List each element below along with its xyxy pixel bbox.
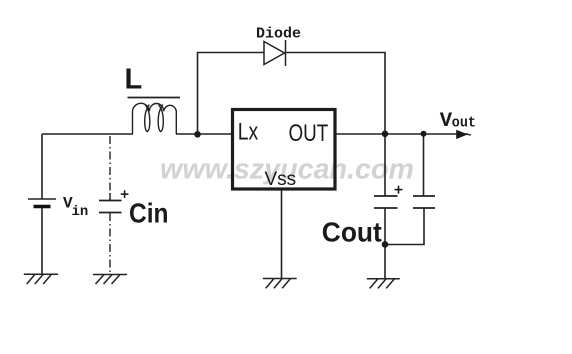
wire OUT rail [336,133,468,135]
svg-text:Cin: Cin [129,198,169,229]
plus sign Cout [395,186,403,194]
svg-text:in: in [72,204,89,220]
capacitor Cin dashed leads [109,136,111,275]
capacitor Cout (polarized) [374,196,398,208]
ground battery [24,274,58,284]
wire main rail left [42,133,133,135]
wire cap1 bottom lead [384,208,386,245]
ground Cin [93,275,127,285]
ground Cout [367,279,400,289]
node junction diode drop [382,131,389,138]
wire diode cathode to drop [286,53,386,197]
wire cap2 top lead [423,134,425,196]
wire battery bottom lead [41,207,43,275]
arrow Vout [456,130,468,139]
wire cap2 bottom lead [385,208,424,245]
battery Vin [28,198,56,200]
wire battery top lead [41,134,43,199]
svg-text:L: L [125,64,143,96]
svg-text:Diode: Diode [256,26,301,43]
svg-text:OUT: OUT [289,120,329,147]
node junction cout bottom [382,241,389,248]
inductor L coil [133,103,177,134]
diode D1 [264,40,286,66]
node junction cap2 [421,131,427,137]
wire rail inductor to IC [176,133,232,135]
IC U1 [233,110,336,190]
svg-text:out: out [452,115,476,132]
svg-text:Vss: Vss [265,169,297,190]
svg-text:Cout: Cout [322,217,382,248]
plus sign Cin [121,190,129,198]
inductor core bar [128,97,181,99]
svg-text:Lx: Lx [238,119,259,146]
ground VSS [263,279,297,289]
capacitor C2 [413,196,435,208]
wire riser to diode [198,53,265,135]
wire to ground of Cout [384,245,386,279]
wire VSS lead [281,191,283,279]
capacitor Cin [99,193,122,213]
node junction riser [194,131,201,138]
